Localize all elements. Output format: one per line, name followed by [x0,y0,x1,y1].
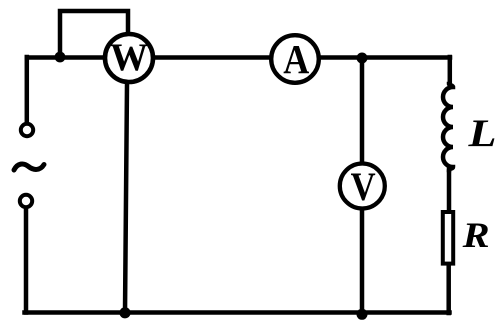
svg-text:A: A [283,36,309,82]
svg-text:W: W [110,36,148,79]
svg-text:L: L [467,112,496,155]
svg-text:V: V [351,164,376,209]
svg-text:R: R [462,215,490,255]
